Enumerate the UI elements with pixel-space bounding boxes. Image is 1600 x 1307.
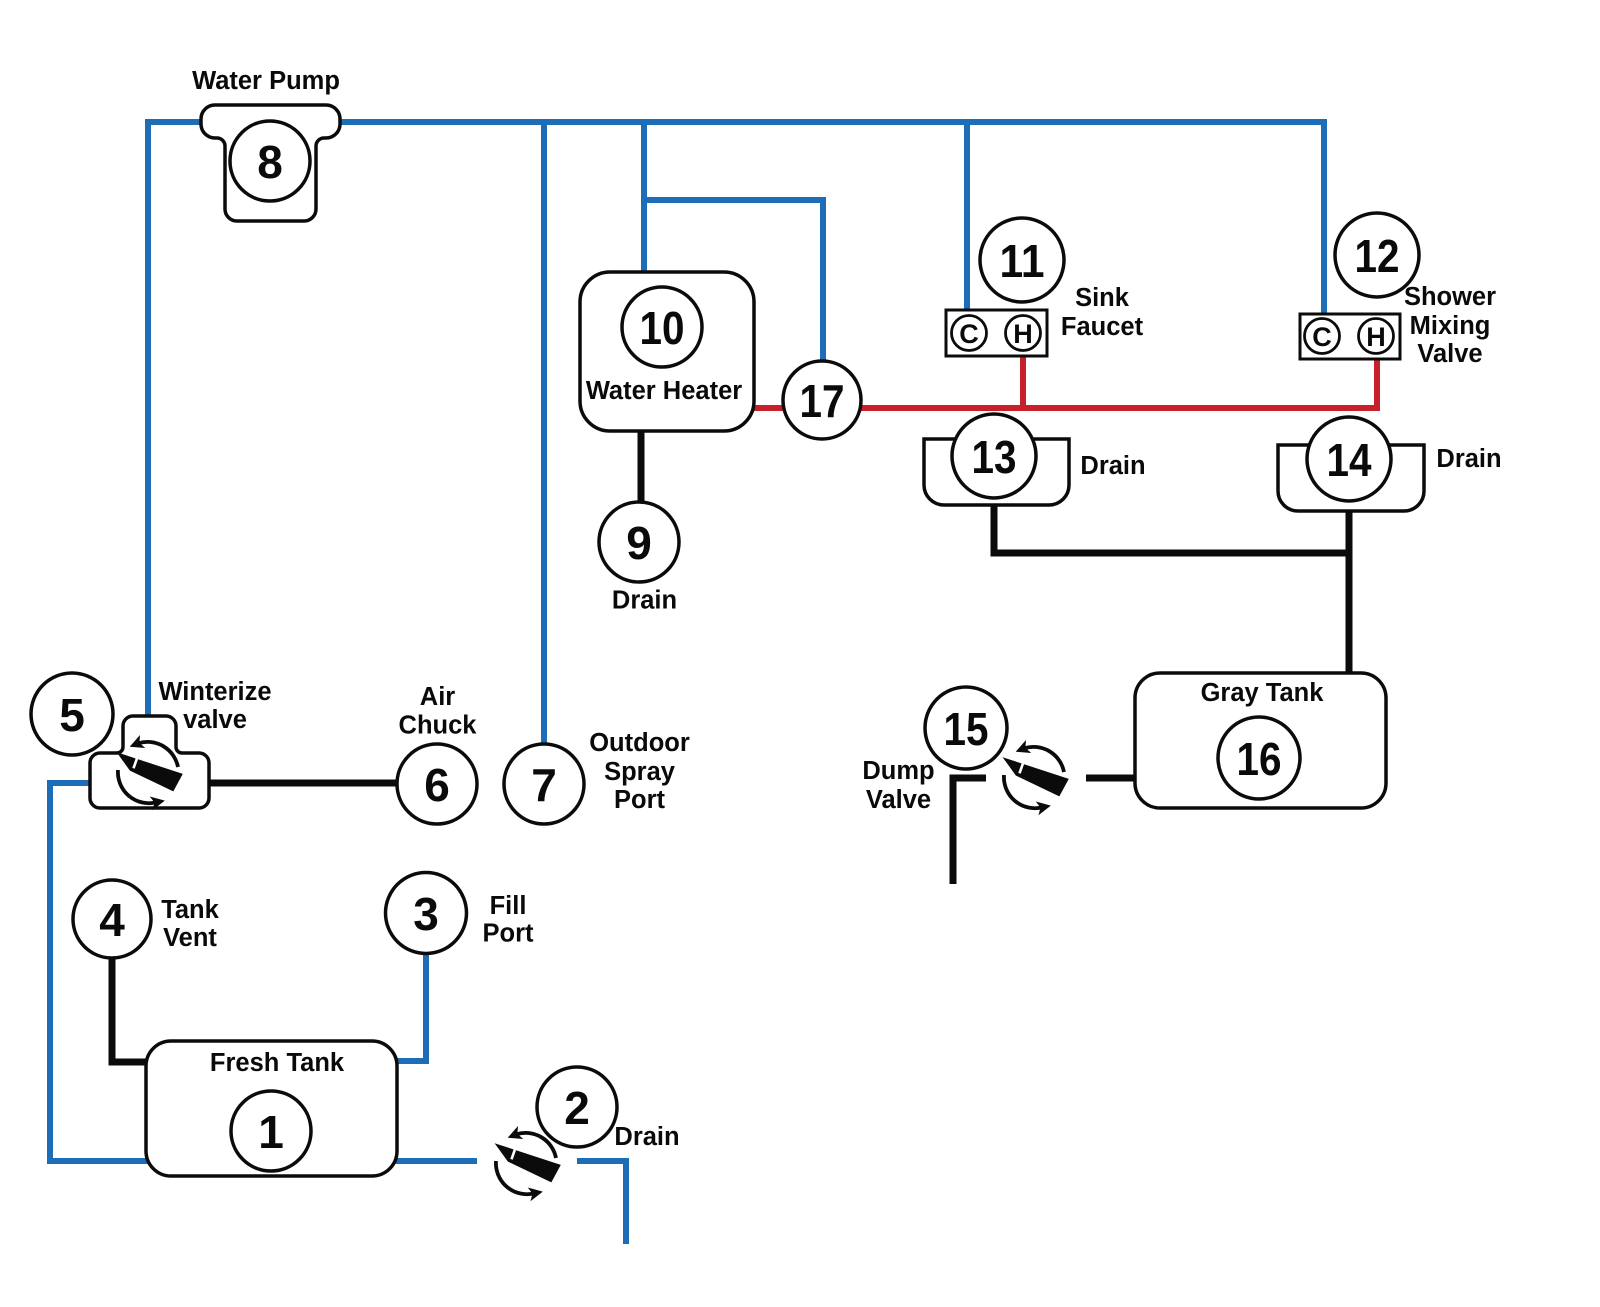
- svg-text:Spray: Spray: [604, 758, 676, 786]
- sink faucet box: [946, 310, 1047, 356]
- svg-text:Winterize: Winterize: [158, 678, 271, 706]
- node 11 sink faucet: [980, 218, 1064, 302]
- svg-text:4: 4: [99, 894, 125, 946]
- water heater U10 box: [580, 272, 754, 431]
- wire black drains 13 and 14 to gray tank: [994, 498, 1349, 553]
- node 3 fill port: [386, 873, 467, 954]
- svg-text:1: 1: [258, 1106, 284, 1158]
- wire blue to water heater: [641, 122, 647, 280]
- svg-text:Drain: Drain: [1436, 445, 1501, 473]
- svg-text:Water Pump: Water Pump: [192, 67, 340, 95]
- svg-text:Valve: Valve: [866, 786, 931, 814]
- node 13 sink drain: [952, 414, 1036, 498]
- svg-text:Sink: Sink: [1075, 284, 1130, 312]
- wire blue to outdoor spray port: [541, 122, 547, 746]
- node 8 water pump: [230, 121, 310, 201]
- svg-text:Valve: Valve: [1417, 340, 1482, 368]
- svg-text:H: H: [1366, 322, 1386, 352]
- node 1 fresh tank: [231, 1091, 311, 1171]
- svg-text:Outdoor: Outdoor: [589, 729, 690, 757]
- svg-text:C: C: [959, 319, 979, 349]
- winterize valve body: [90, 716, 209, 808]
- svg-text:Dump: Dump: [862, 757, 934, 785]
- svg-text:8: 8: [257, 136, 283, 188]
- svg-text:12: 12: [1355, 230, 1400, 282]
- svg-text:13: 13: [972, 431, 1017, 483]
- svg-text:3: 3: [413, 888, 439, 940]
- svg-text:C: C: [1312, 322, 1332, 352]
- node 17 hot junction: [783, 361, 861, 439]
- node 10 water heater: [622, 287, 702, 367]
- svg-text:Port: Port: [483, 920, 535, 948]
- wire blue fresh tank to drain valve 2: [393, 1158, 477, 1164]
- drain 13 tub: [924, 439, 1069, 505]
- gray tank box: [1135, 673, 1386, 808]
- wire red hot water bus: [750, 352, 1377, 408]
- node 2 drain valve: [537, 1067, 617, 1147]
- wire black water heater drain: [638, 425, 645, 506]
- node 7 outdoor spray port: [504, 744, 584, 824]
- drain 14 tub: [1278, 445, 1424, 511]
- svg-text:14: 14: [1327, 434, 1372, 486]
- wire black winterize valve to air chuck: [209, 780, 400, 787]
- valve symbol drain 2: [495, 1126, 561, 1201]
- svg-text:valve: valve: [183, 706, 247, 734]
- node 5 winterize valve: [31, 673, 113, 755]
- wire blue to sink faucet cold: [964, 122, 970, 320]
- svg-text:11: 11: [1000, 235, 1045, 287]
- wire blue fill port to fresh tank: [393, 950, 426, 1061]
- wire blue branch to node 17: [644, 200, 823, 366]
- svg-text:5: 5: [59, 689, 85, 741]
- node 6 air chuck: [397, 744, 477, 824]
- svg-text:Drain: Drain: [614, 1123, 679, 1151]
- svg-text:16: 16: [1237, 733, 1282, 785]
- wire black tank vent to fresh tank: [112, 950, 150, 1062]
- svg-text:Drain: Drain: [1080, 452, 1145, 480]
- svg-text:H: H: [1013, 319, 1033, 349]
- svg-text:Chuck: Chuck: [399, 712, 478, 740]
- valve symbol winterize: [117, 735, 183, 810]
- wire black gray tank to dump valve: [1086, 775, 1138, 782]
- svg-text:Air: Air: [420, 683, 456, 711]
- wire black dump valve outlet: [953, 778, 986, 884]
- svg-text:9: 9: [626, 517, 652, 569]
- svg-text:Fresh Tank: Fresh Tank: [210, 1049, 345, 1077]
- svg-text:Vent: Vent: [163, 924, 217, 952]
- node 15 dump valve: [925, 687, 1007, 769]
- svg-text:Fill: Fill: [490, 892, 527, 920]
- node 4 tank vent: [73, 880, 151, 958]
- svg-text:6: 6: [424, 759, 450, 811]
- water pump P8 body: [201, 105, 340, 221]
- svg-text:Port: Port: [614, 786, 666, 814]
- svg-text:Drain: Drain: [612, 587, 677, 615]
- svg-text:7: 7: [531, 759, 557, 811]
- node 14 shower drain: [1307, 417, 1391, 501]
- svg-text:Gray Tank: Gray Tank: [1201, 679, 1325, 707]
- svg-text:Shower: Shower: [1404, 283, 1496, 311]
- svg-text:17: 17: [800, 375, 845, 427]
- node 12 shower mixing valve: [1335, 213, 1419, 297]
- wire blue winterize valve to fresh tank: [50, 783, 150, 1161]
- wire blue main bus top: [148, 122, 1324, 716]
- fresh tank box: [146, 1041, 397, 1176]
- node 16 gray tank: [1218, 717, 1300, 799]
- node 9 heater drain: [599, 502, 679, 582]
- svg-text:15: 15: [944, 703, 989, 755]
- svg-text:10: 10: [640, 302, 685, 354]
- svg-text:Tank: Tank: [161, 896, 219, 924]
- wire blue drain valve 2 outlet: [577, 1161, 626, 1244]
- svg-text:2: 2: [564, 1082, 590, 1134]
- svg-text:Water Heater: Water Heater: [586, 377, 742, 405]
- wire red to sink faucet hot: [1020, 350, 1026, 408]
- valve symbol dump 15: [1003, 740, 1069, 815]
- svg-text:Faucet: Faucet: [1061, 313, 1144, 341]
- svg-text:Mixing: Mixing: [1410, 312, 1491, 340]
- shower mixing valve box: [1300, 314, 1400, 359]
